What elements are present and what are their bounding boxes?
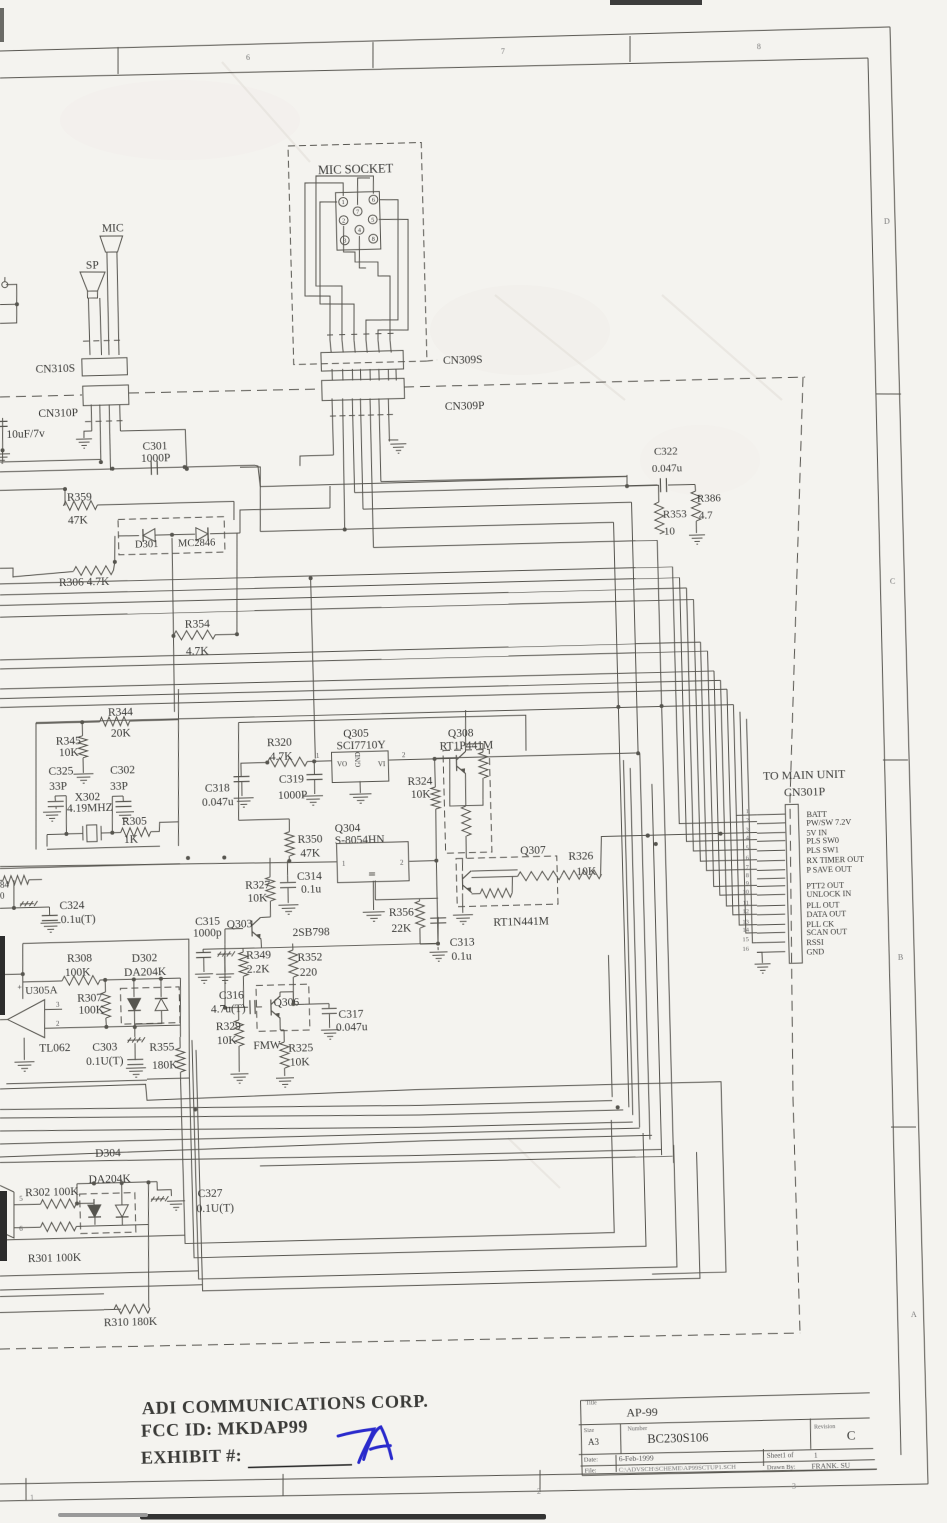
op-amp U305B partial	[0, 1192, 15, 1238]
wire D301 box right to bus	[239, 508, 330, 533]
resistor R354	[171, 634, 175, 638]
capacitor C324	[48, 907, 50, 915]
svg-text:TL062: TL062	[39, 1042, 71, 1055]
dashed box D304	[80, 1193, 136, 1234]
svg-text:TO MAIN UNIT: TO MAIN UNIT	[763, 767, 846, 783]
capacitor C319	[313, 761, 315, 774]
wire Q303 connections	[261, 916, 271, 918]
svg-text:R324: R324	[407, 775, 432, 788]
wire bottom net 7	[0, 1145, 662, 1167]
resistor R320	[265, 760, 269, 764]
svg-text:C315: C315	[195, 915, 220, 928]
jack block top left	[0, 284, 18, 323]
capacitor C324 tantalum mark	[20, 901, 38, 906]
ground 10uF	[2, 450, 4, 453]
box around Q305 stage	[239, 715, 527, 758]
svg-text:220: 220	[300, 967, 318, 979]
resistor Q308 bias 2	[461, 806, 471, 836]
wires CN310P down	[90, 405, 93, 431]
title block row line 4	[581, 1458, 875, 1467]
resistor R353	[657, 485, 660, 502]
svg-text:4.7K: 4.7K	[186, 645, 210, 658]
svg-text:VO: VO	[337, 760, 347, 768]
vertical X302 caps	[65, 796, 67, 834]
svg-text:33P: 33P	[49, 780, 67, 792]
connector separation marks CN310	[83, 339, 120, 342]
wire Q304 pin2 right	[409, 860, 436, 863]
border column ticks top	[117, 47, 118, 74]
svg-text:RSSI: RSSI	[806, 938, 824, 947]
pin 7	[353, 207, 362, 216]
border row ticks right	[876, 393, 901, 394]
wire long net 857	[0, 858, 337, 871]
scan artifact top edge	[610, 0, 702, 5]
svg-text:C313: C313	[450, 936, 475, 949]
wire bus jog down right of C301	[255, 465, 260, 487]
pin 2	[339, 216, 348, 225]
dashed boundary right edge	[774, 377, 828, 1333]
svg-text:0.1u: 0.1u	[451, 950, 472, 963]
svg-text:10: 10	[742, 889, 749, 896]
connector CN301P pin stubs and numbers	[757, 813, 785, 816]
wire left column box corner down	[189, 1066, 646, 1258]
dashed box D302	[120, 987, 180, 1024]
svg-text:Size: Size	[584, 1428, 595, 1434]
crystal X302	[47, 833, 66, 836]
title block row line 2	[579, 1417, 870, 1425]
svg-text:R307: R307	[77, 992, 102, 1005]
wire Q307 emitter ground	[461, 893, 464, 912]
title block cell divider date file	[615, 1455, 618, 1472]
svg-text:22K: 22K	[391, 922, 412, 935]
pin 3	[340, 236, 349, 245]
svg-text:MIC SOCKET: MIC SOCKET	[318, 161, 394, 177]
svg-text:FRANK. SU: FRANK. SU	[811, 1461, 851, 1471]
box oscillator enclosure	[33, 723, 40, 850]
svg-text:1000P: 1000P	[278, 789, 308, 802]
svg-text:10K: 10K	[576, 865, 597, 878]
pin 6	[369, 195, 378, 204]
svg-text:CN309P: CN309P	[445, 400, 485, 413]
mic socket internal wiring	[302, 182, 347, 341]
transistor Q308	[456, 752, 466, 774]
connector CN310P	[83, 385, 129, 406]
svg-text:FMW: FMW	[253, 1039, 281, 1052]
svg-text:Q308: Q308	[448, 727, 474, 740]
svg-text:S-8054HN: S-8054HN	[335, 834, 386, 847]
svg-text:2: 2	[746, 817, 749, 824]
svg-text:A3: A3	[588, 1437, 600, 1447]
connector CN301P body	[785, 804, 802, 963]
capacitor tantalum marks	[217, 951, 235, 956]
capacitor C322	[627, 484, 659, 487]
resistor R384 left edge	[0, 879, 3, 881]
wire SP to CN310S	[88, 298, 90, 355]
ground C327	[167, 1201, 185, 1211]
capacitor C302	[122, 796, 124, 801]
svg-text:1000P: 1000P	[141, 452, 171, 465]
svg-text:2: 2	[342, 217, 345, 224]
exhibit underline	[248, 1465, 352, 1468]
wire bottom net 4	[0, 1114, 633, 1138]
svg-text:10: 10	[664, 526, 676, 538]
svg-text:C319: C319	[279, 773, 304, 786]
capacitor C303 marks	[127, 1037, 145, 1042]
svg-text:C302: C302	[110, 764, 135, 777]
resistor R308	[23, 981, 62, 982]
transistor Q306	[271, 996, 281, 1018]
title block cell divider size-number	[619, 1424, 622, 1454]
wire bottom net 8	[260, 1155, 673, 1167]
svg-text:1: 1	[746, 808, 749, 815]
svg-text:Sheet1 of: Sheet1 of	[767, 1451, 795, 1460]
ground Q304	[373, 881, 374, 910]
svg-text:0.1U(T): 0.1U(T)	[86, 1055, 124, 1068]
resistor R327	[270, 858, 271, 877]
svg-text:C: C	[890, 577, 896, 586]
svg-text:C303: C303	[92, 1041, 117, 1054]
op-amp U305A triangle	[7, 1000, 46, 1039]
svg-text:10uF/7v: 10uF/7v	[6, 428, 45, 441]
svg-text:D304: D304	[95, 1147, 121, 1160]
svg-text:SCI7710Y: SCI7710Y	[336, 739, 386, 752]
wire net Q304pin2 down	[375, 898, 438, 900]
capacitor C315	[202, 949, 204, 952]
svg-text:C322: C322	[654, 445, 678, 458]
dashed box stub to CN309S	[427, 360, 437, 361]
microphone symbol MIC	[100, 235, 123, 252]
MIC SOCKET dashed box	[288, 143, 427, 365]
wire left column 4	[196, 1037, 700, 1291]
wire bus net A2	[0, 577, 679, 595]
svg-text:DA204K: DA204K	[124, 966, 167, 979]
transistor Q303	[252, 917, 262, 939]
svg-text:R302 100K: R302 100K	[25, 1186, 79, 1199]
svg-text:R353: R353	[663, 508, 688, 521]
wire Q308 base rail	[449, 758, 484, 806]
wire net long 529	[260, 522, 613, 531]
svg-text:File:: File:	[584, 1467, 596, 1474]
svg-text:D: D	[884, 217, 890, 226]
page border inner right	[864, 58, 904, 1455]
svg-text:R327: R327	[245, 879, 270, 892]
capacitor C318	[241, 763, 250, 776]
svg-text:MC2846: MC2846	[178, 538, 216, 550]
svg-text:5: 5	[746, 844, 749, 851]
title block outer	[581, 1393, 870, 1401]
resistor R350	[288, 819, 291, 832]
svg-text:47K: 47K	[300, 847, 321, 860]
wire net R344 long	[36, 704, 733, 723]
svg-text:4.19MHZ: 4.19MHZ	[67, 802, 113, 815]
svg-text:R301 100K: R301 100K	[28, 1252, 82, 1265]
svg-text:100K: 100K	[78, 1004, 105, 1017]
wire bottom net 3	[0, 1102, 623, 1127]
transistor Q307	[462, 871, 472, 893]
wire main audio bus	[1, 450, 3, 461]
svg-text:15: 15	[742, 936, 749, 943]
connector CN309S	[321, 350, 404, 371]
svg-text:13: 13	[742, 918, 749, 925]
wire Q308 to top rail	[465, 710, 467, 744]
wire left column 3	[192, 1027, 677, 1279]
Q308 collector emitter wiring	[464, 744, 467, 752]
dashed box Q306	[256, 984, 310, 1031]
svg-text:C301: C301	[142, 440, 167, 453]
wire bottom left nets	[0, 1235, 185, 1240]
wire Q305 pin1	[315, 760, 332, 762]
svg-text:100K: 100K	[65, 966, 92, 979]
ground R386	[689, 535, 705, 545]
wire C327 drop	[157, 1181, 171, 1196]
svg-text:1: 1	[30, 1493, 34, 1502]
svg-text:R352: R352	[297, 951, 322, 964]
scan artifact top left corner	[0, 8, 4, 42]
svg-text:2: 2	[537, 1487, 541, 1496]
svg-text:47K: 47K	[68, 514, 89, 527]
wire CN310P pin4 right jog	[120, 429, 186, 470]
svg-text:11: 11	[743, 899, 749, 906]
wire D301 center down	[171, 538, 175, 636]
svg-text:Revision: Revision	[814, 1424, 835, 1431]
svg-text:PLS SW1: PLS SW1	[806, 845, 839, 855]
border column ticks bottom	[25, 1478, 26, 1500]
wire net 1184	[76, 1184, 77, 1204]
svg-text:D302: D302	[132, 952, 158, 965]
svg-text:Q304: Q304	[335, 822, 361, 835]
svg-text:Q307: Q307	[520, 844, 546, 857]
verticals cascade right to lower blocks	[614, 522, 619, 707]
svg-text:R356: R356	[389, 906, 414, 919]
Q304 inner mark	[369, 872, 375, 874]
pin 5	[368, 215, 377, 224]
connector separation marks	[327, 333, 393, 335]
capacitor C313	[437, 917, 439, 944]
wire MIC to CN310S	[106, 252, 109, 355]
wire net 868 long	[0, 864, 180, 869]
resistor R386	[694, 484, 697, 491]
wire bottom net 2	[0, 1093, 612, 1116]
svg-text:GND: GND	[806, 947, 824, 956]
wire riser columns to bottom bundle	[608, 955, 612, 1097]
svg-text:A: A	[911, 1310, 917, 1319]
diode D304b	[120, 1183, 123, 1205]
svg-text:1000p: 1000p	[193, 927, 222, 940]
dashed boundary bottom edge	[0, 1328, 800, 1354]
svg-text:0.1u(T): 0.1u(T)	[61, 913, 96, 926]
ground CN310P pin1	[84, 431, 92, 438]
wire net 899 from left	[374, 880, 377, 899]
wire net Q305 supply from top	[311, 578, 316, 758]
wire bus net C1	[0, 670, 714, 689]
svg-text:C317: C317	[338, 1008, 363, 1021]
wire R359 to D301	[97, 501, 234, 505]
svg-text:3: 3	[792, 1482, 796, 1491]
title block row line 3	[579, 1447, 873, 1456]
scan streaks	[222, 62, 782, 1188]
speaker symbol SP	[80, 271, 106, 291]
wire bus net C3	[0, 688, 727, 708]
svg-text:RT1N441M: RT1N441M	[493, 916, 549, 929]
svg-text:D301: D301	[135, 539, 159, 551]
wire U305A plus net	[21, 972, 25, 976]
ground op-amp	[23, 1038, 26, 1060]
svg-text:U305A: U305A	[25, 984, 58, 997]
svg-text:33P: 33P	[110, 781, 128, 793]
wire R354 right up	[234, 533, 239, 634]
diode D304a	[77, 1202, 94, 1205]
wire Q306 emitter	[279, 1018, 281, 1030]
svg-text:Drawn By:: Drawn By:	[767, 1464, 796, 1472]
diode D301	[118, 534, 139, 537]
svg-text:R359: R359	[67, 491, 92, 504]
wire Q305 pin2 long left	[435, 753, 636, 758]
pin 8	[369, 234, 378, 243]
resistor R352	[292, 944, 294, 951]
svg-text:R386: R386	[697, 492, 722, 505]
resistor R344	[80, 720, 84, 724]
dashed box D301 MC2846	[118, 517, 225, 555]
page border inner top	[0, 55, 868, 80]
svg-text:1K: 1K	[124, 834, 139, 846]
svg-text:20K: 20K	[111, 727, 132, 740]
resistor R355	[179, 1037, 181, 1048]
resistor R359	[64, 489, 67, 505]
resistor Q308 bias 1	[479, 752, 489, 778]
wire bus net B1	[0, 642, 700, 661]
wire mid net 948	[203, 943, 438, 949]
svg-text:PW/SW 7.2V: PW/SW 7.2V	[806, 818, 851, 828]
resistor R345	[81, 722, 83, 736]
svg-text:1: 1	[814, 1450, 818, 1459]
svg-text:84: 84	[0, 880, 10, 890]
wire Q307 base resistors	[472, 870, 518, 871]
svg-text:9: 9	[746, 880, 749, 887]
wire bus net A3	[0, 588, 686, 606]
connector separation marks CN309P	[330, 414, 393, 416]
resistor R327b	[517, 871, 561, 881]
svg-text:CN310S: CN310S	[35, 362, 75, 375]
title block cell divider sheet	[762, 1449, 765, 1466]
svg-text:C325: C325	[48, 765, 73, 778]
wires CN309S to CN309P	[331, 369, 333, 381]
capacitor C314	[287, 876, 289, 882]
wire net cascades right mid	[355, 485, 658, 493]
pin 4	[355, 225, 364, 234]
resistor R329	[237, 1007, 239, 1020]
svg-text:10K: 10K	[247, 892, 268, 905]
svg-text:C316: C316	[219, 989, 244, 1002]
wire bundle to CN309S	[330, 340, 331, 353]
wire CN309P pin bundle down	[332, 398, 333, 455]
svg-text:EXHIBIT #:: EXHIBIT #:	[141, 1445, 243, 1468]
IC U Q305 body	[331, 751, 388, 783]
resistor R306	[13, 571, 74, 576]
connector CN309P	[322, 378, 405, 400]
svg-text:P SAVE OUT: P SAVE OUT	[806, 864, 852, 874]
diode D302b	[160, 979, 163, 997]
box TL062 enclosure	[23, 939, 193, 1082]
svg-text:16: 16	[742, 946, 749, 953]
ground R345	[82, 758, 84, 773]
resistor R307	[104, 980, 106, 992]
wire D304 bottom to R310	[147, 1182, 149, 1224]
resistor R310	[114, 1308, 121, 1310]
svg-text:R355: R355	[149, 1041, 174, 1054]
scan artifact left edge 1	[0, 936, 5, 1015]
svg-text:AP-99: AP-99	[626, 1405, 658, 1420]
svg-text:4.7K: 4.7K	[270, 750, 294, 763]
svg-text:0.047u: 0.047u	[652, 462, 683, 475]
svg-text:6-Feb-1999: 6-Feb-1999	[619, 1453, 654, 1463]
svg-text:C324: C324	[59, 899, 84, 912]
capacitor C303	[127, 1059, 143, 1064]
svg-text:GND: GND	[354, 752, 362, 767]
resistor R324	[434, 759, 437, 787]
diode D302a	[133, 979, 136, 997]
svg-text:CN310P: CN310P	[38, 407, 78, 420]
svg-text:8: 8	[746, 872, 749, 879]
wire op-amp output	[0, 1019, 8, 1021]
wire Q307 collector up	[461, 859, 464, 871]
junction dot riser	[616, 1105, 620, 1109]
pin 1	[339, 197, 348, 206]
svg-text:7: 7	[501, 47, 505, 56]
bus turn verticals to connector pins	[673, 565, 758, 824]
svg-text:C318: C318	[205, 782, 230, 795]
wire Q308 emitter down	[465, 774, 466, 806]
dashed box Q308	[443, 749, 492, 853]
wire 332 jog left	[300, 455, 334, 466]
svg-text:VI: VI	[378, 760, 386, 768]
resistor R355 connect	[179, 1025, 182, 1037]
wire net C324	[13, 880, 14, 908]
svg-text:14: 14	[742, 927, 749, 934]
svg-text:B: B	[898, 953, 904, 962]
wire bus net A1	[0, 566, 673, 584]
wire pin1 stub	[736, 814, 757, 817]
svg-text:0.1U(T): 0.1U(T)	[196, 1202, 234, 1215]
resistor R356	[415, 901, 425, 928]
resistor R326 body	[561, 870, 601, 880]
resistor R305	[112, 832, 120, 834]
wire left column R355 down	[181, 1071, 615, 1244]
resistor Q307 base-emitter	[480, 888, 512, 898]
svg-text:10K: 10K	[59, 746, 80, 759]
wire bottom net 6	[0, 1135, 652, 1157]
wire net 5V IN from R326	[600, 832, 758, 876]
wire box right vertical	[179, 978, 182, 1025]
svg-text:R320: R320	[267, 736, 292, 749]
wire R350 top to box	[237, 808, 240, 820]
svg-text:10K: 10K	[290, 1056, 311, 1069]
svg-text:MIC: MIC	[102, 222, 124, 235]
ground Q305	[359, 781, 361, 793]
svg-text:0.047u: 0.047u	[202, 796, 234, 809]
wire bottom net 5	[0, 1127, 640, 1145]
page border outer top	[0, 27, 890, 51]
page border outer right	[890, 27, 928, 1484]
resistor R301 body	[14, 1226, 40, 1229]
handwritten 7A blue ink	[338, 1429, 375, 1463]
scan artifact left edge 2	[0, 1191, 7, 1261]
svg-text:8: 8	[757, 42, 761, 51]
svg-text:8: 8	[372, 236, 375, 243]
svg-text:2.2K: 2.2K	[247, 963, 271, 976]
svg-text:R308: R308	[67, 952, 92, 965]
wire bus net A4	[0, 599, 693, 618]
wire bus net C2	[0, 680, 721, 699]
